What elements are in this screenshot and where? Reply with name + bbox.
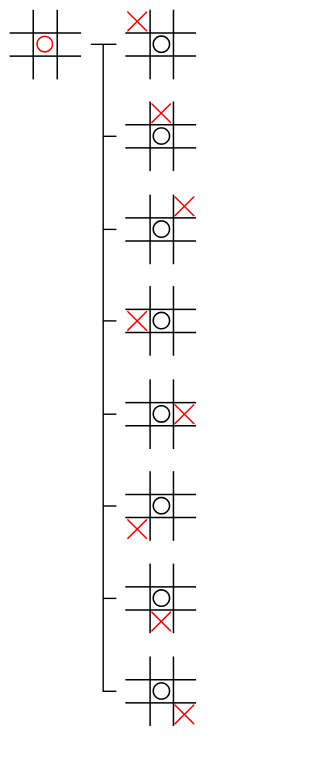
black O child7 center <box>153 590 169 606</box>
wire tick to child 8 <box>103 690 116 692</box>
red X child5 <box>175 405 194 424</box>
red X child7 <box>152 612 171 631</box>
black O child5 center <box>153 406 169 422</box>
board child3 grid <box>125 195 196 265</box>
wire root-to-trunk link and tick to child 1 <box>91 43 117 45</box>
red X child3 <box>175 197 194 216</box>
black O child1 center <box>153 36 169 52</box>
wire trunk vertical <box>102 44 104 692</box>
red X child1 <box>128 12 147 31</box>
board child6 grid <box>125 471 196 541</box>
wire tick to child 4 <box>103 320 116 322</box>
wire tick to child 7 <box>103 597 116 599</box>
black O child6 center <box>153 498 169 514</box>
red X child8 <box>175 705 194 724</box>
board root grid <box>10 10 82 80</box>
board child2 grid <box>125 102 196 172</box>
board child7 grid <box>125 564 196 634</box>
board child5 grid <box>125 379 196 449</box>
black O child3 center <box>153 221 169 237</box>
red X child4 <box>128 312 147 331</box>
red X child6 <box>128 520 147 539</box>
black O child4 center <box>153 312 169 328</box>
wire tick to child 2 <box>103 135 116 137</box>
red O root center <box>37 36 53 52</box>
wire tick to child 5 <box>103 413 116 415</box>
board child4 grid <box>125 286 196 356</box>
board child8 grid <box>125 657 196 727</box>
board child1 grid <box>125 10 196 80</box>
wire tick to child 6 <box>103 505 116 507</box>
red X child2 <box>152 104 171 123</box>
black O child2 center <box>153 128 169 144</box>
wire tick to child 3 <box>103 228 116 230</box>
black O child8 center <box>153 683 169 699</box>
